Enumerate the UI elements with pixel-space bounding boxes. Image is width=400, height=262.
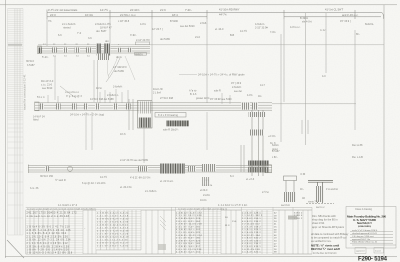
svg-text:6 sp @ 4⅛ = 24-10⅝: 6 sp @ 4⅛ = 24-10⅝ <box>82 182 106 185</box>
svg-text:2 6 L 4¾ 4 6-0⅛ 8-1 36: 2 6 L 4¾ 4 6-0⅛ 8-1 36 <box>97 221 129 224</box>
svg-text:rivets 7⅜: rivets 7⅜ <box>308 201 318 204</box>
svg-text:2 2 9-6¼ 156 1: 2 2 9-6¼ 156 1 <box>242 217 261 220</box>
svg-text:el. 21'-6 a.b.: el. 21'-6 a.b. <box>160 180 174 183</box>
svg-text:2 6 12-2¼ 184: 2 6 12-2¼ 184 <box>242 234 260 237</box>
svg-text:3'-9¼: 3'-9¼ <box>130 34 137 37</box>
svg-text:el. 20-0 fin: el. 20-0 fin <box>120 186 132 189</box>
svg-text:4-0⅝ o.c.: 4-0⅝ o.c. <box>290 26 301 29</box>
svg-text:4'-6 21'-8⅛ 10'-0¾: 4'-6 21'-8⅛ 10'-0¾ <box>130 177 152 180</box>
svg-text:to be compared to match R-col: to be compared to match R-col <box>311 236 347 240</box>
svg-text:appr. w/ Sheet E-98 System: appr. w/ Sheet E-98 System <box>312 225 344 229</box>
svg-text:B-B: B-B <box>230 34 235 37</box>
svg-text:1 L 6 9-6¼ 8-2 4 12 8¾ 342: 1 L 6 9-6¼ 8-2 4 12 8¾ 342 <box>27 232 67 235</box>
svg-text:(BUREAU OF YARDS): (BUREAU OF YARDS) <box>358 225 371 228</box>
svg-text:2-12” 20.7# see det 5189: 2-12” 20.7# see det 5189 <box>120 159 149 162</box>
svg-text:b 5187: b 5187 <box>27 64 35 67</box>
svg-text:Dec w #8: Dec w #8 <box>352 144 363 147</box>
svg-text:and 4'-0⅝ o.c.: and 4'-0⅝ o.c. <box>342 13 359 17</box>
svg-text:36 W·F: 36 W·F <box>26 60 35 63</box>
svg-text:B 5190: B 5190 <box>170 20 179 23</box>
svg-text:Class 4 drawing: Class 4 drawing <box>355 208 373 211</box>
svg-text:14 W·F 34# det 5188: 14 W·F 34# det 5188 <box>90 98 114 101</box>
svg-text:shop dwg for the 80 in: shop dwg for the 80 in <box>312 218 338 222</box>
svg-text:1 2 B 4¾ 11-0⅛ 218: 1 2 B 4¾ 11-0⅛ 218 <box>176 223 202 226</box>
svg-text:16'-3⅛: 16'-3⅛ <box>85 13 94 17</box>
svg-text:2-12” 20.7# [: 2-12” 20.7# [ <box>136 39 150 42</box>
svg-text:2 L 4¼ 8-6 11-2 4 16 5¼ 412: 2 L 4¼ 8-6 11-2 4 16 5¼ 412 <box>27 242 69 245</box>
svg-text:det 5189: det 5189 <box>160 38 170 41</box>
svg-text:as verified for rev.: as verified for rev. <box>311 239 332 243</box>
svg-text:2 1 6-4¼ 322 1: 2 1 6-4¼ 322 1 <box>242 251 261 254</box>
svg-text:3-6: 3-6 <box>88 37 92 40</box>
svg-text:41'-10⅝ RD RWY: 41'-10⅝ RD RWY <box>219 8 240 12</box>
svg-text:7-0¼: 7-0¼ <box>270 31 277 34</box>
svg-text:27 W·F 94#: 27 W·F 94# <box>160 97 174 100</box>
svg-text:C.E. dwg no. 5194 sect: C.E. dwg no. 5194 sect <box>352 235 374 238</box>
svg-text:1 6 B 4¼ 2 5-6¾ 8-3 19: 1 6 B 4¼ 2 5-6¾ 8-3 19 <box>97 236 129 239</box>
svg-text:det 5189: det 5189 <box>114 70 124 73</box>
svg-text:24'-10⅝ + 14'-7½ + 24'-4 c. o: 24'-10⅝ + 14'-7½ + 24'-4 c. of RWY girde… <box>198 73 245 77</box>
svg-text:F290- 5194: F290- 5194 <box>358 256 388 262</box>
svg-text:4⅛″ø: 4⅛″ø <box>96 87 102 90</box>
svg-text:sht 4-0⅝: sht 4-0⅝ <box>302 21 313 24</box>
svg-text:det A: det A <box>116 56 122 59</box>
svg-text:6-6: 6-6 <box>58 34 62 37</box>
svg-text:1 mk sect len wt 2 4 L 36 148: 1 mk sect len wt 2 4 L 36 148 <box>27 215 70 218</box>
svg-text:15” 33.9 [: 15” 33.9 [ <box>340 20 351 23</box>
svg-text:2-6x6: 2-6x6 <box>200 22 207 25</box>
svg-text:4 2 B 3⅛ 2 9-2¼ 7-6 42: 4 2 B 3⅛ 2 9-2¼ 7-6 42 <box>97 218 129 221</box>
svg-text:REV Fld ¾” rivet add'l: REV Fld ¾” rivet add'l <box>311 247 340 251</box>
svg-text:15” [ 33.9: 15” [ 33.9 <box>231 82 242 85</box>
svg-text:1 B 8¾ 7-2¼ 5-6 1 14 6⅛ 326: 1 B 8¾ 7-2¼ 5-6 1 14 6⅛ 326 <box>27 249 70 252</box>
svg-text:Dw. c-4-B: Dw. c-4-B <box>352 156 363 159</box>
svg-text:4-0⅝: 4-0⅝ <box>247 94 252 97</box>
svg-text:2-6x4x⅜: 2-6x4x⅜ <box>113 86 122 89</box>
svg-text:2-6x6x¾ L: 2-6x6x¾ L <box>107 94 119 97</box>
svg-text:traced: traced <box>375 250 381 253</box>
svg-text:24'-0: 24'-0 <box>50 13 56 17</box>
svg-text:24'-10⅝: 24'-10⅝ <box>130 8 140 12</box>
svg-text:all data is continued with B'd: all data is continued with B'dway <box>311 232 349 236</box>
svg-text:2-½”ø: 2-½”ø <box>262 190 269 194</box>
svg-text:+2'-0¾: +2'-0¾ <box>268 135 277 138</box>
svg-text:4'-7½ 21'-1⅛ loose lintels: 4'-7½ 21'-1⅛ loose lintels <box>48 8 78 12</box>
svg-text:10-0¾: 10-0¾ <box>200 199 208 202</box>
svg-text:el 20-0: el 20-0 <box>200 189 208 192</box>
svg-text:W·F: W·F <box>225 225 230 227</box>
svg-text:New York, N. Y.: New York, N. Y. <box>357 221 372 225</box>
svg-text:for the Dec 12-8 42 sht: for the Dec 12-8 42 sht <box>313 252 337 255</box>
svg-text:14-7: 14-7 <box>260 84 265 87</box>
svg-text:36 W·F 150: 36 W·F 150 <box>40 175 54 178</box>
svg-text:4 2 B 8⅛ 9-6¼ 126: 4 2 B 8⅛ 9-6¼ 126 <box>176 217 201 220</box>
svg-text:12” 20.7 [: 12” 20.7 [ <box>152 28 163 31</box>
svg-text:6'-0 x 3'-6 bearing: 6'-0 x 3'-6 bearing <box>158 114 178 117</box>
svg-text:4 2 6-0⅛ 218 2: 4 2 6-0⅛ 218 2 <box>242 232 261 234</box>
svg-text:4-1 3x12⅝ x 27'-6: 4-1 3x12⅝ x 27'-6 <box>58 204 78 207</box>
svg-text:B. 4-6: B. 4-6 <box>190 93 197 96</box>
svg-text:1 1 14-2¾ 342 2: 1 1 14-2¾ 342 2 <box>242 214 263 217</box>
svg-text:6x6x¾: 6x6x¾ <box>272 144 280 147</box>
svg-text:see 5190: see 5190 <box>42 87 53 90</box>
svg-text:21'-6: 21'-6 <box>160 8 166 12</box>
svg-text:2-6x4x⅜ L 8½: 2-6x4x⅜ L 8½ <box>95 22 112 26</box>
svg-text:14-7½: 14-7½ <box>240 29 248 33</box>
svg-text:¾ riv: ¾ riv <box>320 29 326 32</box>
svg-text:4 2 B 3¾ 7-3¼ 423: 4 2 B 3¾ 7-3¼ 423 <box>176 239 201 242</box>
svg-text:2 2 7-3¼ 126 1: 2 2 7-3¼ 126 1 <box>242 239 261 242</box>
svg-text:2 2 5-6¾ 416 1: 2 2 5-6¾ 416 1 <box>242 245 261 248</box>
svg-text:approved N.E.T. file: approved N.E.T. file <box>352 238 371 241</box>
svg-text:det. 5187: det. 5187 <box>96 30 107 33</box>
svg-text:see det: see det <box>234 90 242 93</box>
svg-text:18'-4: 18'-4 <box>172 13 178 17</box>
svg-text:14-7½: 14-7½ <box>100 175 108 179</box>
svg-text:riveted: riveted <box>63 27 71 30</box>
svg-text:det: det <box>105 40 109 43</box>
svg-text:o o o 2⅛ o o: o o o 2⅛ o o <box>65 91 80 94</box>
svg-text:1 6 11-2⅛ 158: 1 6 11-2⅛ 158 <box>242 249 260 251</box>
svg-text:el. 44-0: el. 44-0 <box>215 28 224 31</box>
svg-text:sole R: sole R <box>214 90 221 93</box>
svg-text:sole R 18x1¼: sole R 18x1¼ <box>163 129 179 132</box>
svg-text:sect c-c: sect c-c <box>316 206 325 209</box>
svg-text:1”ø anchor: 1”ø anchor <box>326 188 338 191</box>
svg-text:scale ⅛”=1'-0 drawn R.M.S.: scale ⅛”=1'-0 drawn R.M.S. <box>352 229 378 232</box>
svg-text:36: 36 <box>225 217 229 219</box>
svg-text:b.m. 36: b.m. 36 <box>30 187 39 190</box>
svg-text:checked approved 9-12-41: checked approved 9-12-41 <box>352 232 378 235</box>
svg-text:8-4: 8-4 <box>230 175 234 178</box>
svg-text:sect b-b: sect b-b <box>281 204 291 207</box>
svg-text:gusset 12x⅝: gusset 12x⅝ <box>196 97 210 100</box>
svg-text:issued for construction 5-12-: issued for construction 5-12-41 <box>23 74 27 110</box>
svg-text:fitted: fitted <box>33 119 39 122</box>
svg-text:5'-2¾: 5'-2¾ <box>42 56 49 59</box>
svg-text:4. 4-1 3x12 ⅝ x 27'-6” 4 2⅛: 4. 4-1 3x12 ⅝ x 27'-6” 4 2⅛ <box>218 204 247 207</box>
svg-text:2 6 L 5¼ 11-2⅛ 234: 2 6 L 5¼ 11-2⅛ 234 <box>176 248 202 251</box>
svg-text:21'-5⅜ c. to c.: 21'-5⅜ c. to c. <box>120 13 136 17</box>
svg-text:Dim. NB checks with: Dim. NB checks with <box>312 214 336 218</box>
svg-text:2 1 L 6⅛ 1 11-2 6-0 33: 2 1 L 6⅛ 1 11-2 6-0 33 <box>97 240 128 242</box>
svg-text:see det 5190: see det 5190 <box>180 25 195 28</box>
svg-text:B 5187: B 5187 <box>272 150 280 153</box>
svg-text:10'-6: 10'-6 <box>120 133 126 136</box>
svg-text:2-6x4x⅜: 2-6x4x⅜ <box>232 86 241 89</box>
svg-text:4-0⅝: 4-0⅝ <box>140 23 147 26</box>
svg-text:4 1 B 5¾ 2 7-3¼ 9-0 38: 4 1 B 5¾ 2 7-3¼ 9-0 38 <box>97 230 129 233</box>
svg-text:Public Works Officer no. 41: Public Works Officer no. 41 <box>352 241 378 244</box>
svg-text:sheet # 94.: sheet # 94. <box>312 221 325 225</box>
svg-text:21-0: 21-0 <box>195 36 201 39</box>
svg-text:2-L 6x6x¾: 2-L 6x6x¾ <box>145 190 157 193</box>
svg-text:241 267 1750 50#50 4 21 B 64 1: 241 267 1750 50#50 4 21 B 64 172 <box>27 213 78 215</box>
svg-text:14'-7½: 14'-7½ <box>100 8 109 12</box>
svg-text:⅝ fill: ⅝ fill <box>300 173 306 176</box>
svg-text:2 7 B 8¼ 2 4-1¾ 6-3 24: 2 7 B 8¼ 2 4-1¾ 6-3 24 <box>97 212 129 215</box>
svg-text:41'-1⅝ CL SH'T: 41'-1⅝ CL SH'T <box>325 8 344 12</box>
svg-text:c 18” 45.8: c 18” 45.8 <box>118 20 130 23</box>
svg-text:approved: approved <box>356 251 364 253</box>
svg-text:21-8⅛: 21-8⅛ <box>203 194 210 197</box>
svg-text:el +4'-6: el +4'-6 <box>246 178 255 181</box>
svg-text:44'-7¾: 44'-7¾ <box>219 12 228 16</box>
svg-text:2 1 L 3¼ 14-2¾ 418: 2 1 L 3¼ 14-2¾ 418 <box>176 214 202 217</box>
svg-text:15” 33.9# see 5190: 15” 33.9# see 5190 <box>210 98 232 101</box>
svg-text:24'-10⅝ + 14'-7½ + 2'-0¾ (typ): 24'-10⅝ + 14'-7½ + 2'-0¾ (typ) <box>70 113 104 117</box>
svg-text:5194 2: 5194 2 <box>294 213 303 215</box>
svg-text:3” g. 6 sp @ 3: 3” g. 6 sp @ 3 <box>66 95 82 98</box>
svg-text:14” 34# W·F: 14” 34# W·F <box>113 66 127 69</box>
svg-text:2-15” 33.9#: 2-15” 33.9# <box>255 27 268 30</box>
svg-text:2 2 11-0⅛ 412: 2 2 11-0⅛ 412 <box>242 224 260 226</box>
svg-text:½” web R: ½” web R <box>55 178 66 182</box>
svg-text:4-0: 4-0 <box>322 75 326 78</box>
svg-text:7'-0¼: 7'-0¼ <box>185 8 192 12</box>
svg-text:8x4x⅜L: 8x4x⅜L <box>365 23 374 26</box>
svg-text:2 L 6x4: 2 L 6x4 <box>153 92 161 95</box>
svg-text:150: 150 <box>232 221 237 223</box>
svg-text:7'-0: 7'-0 <box>77 32 82 35</box>
svg-text:2 2 L 8¾ 6-0⅛ 329: 2 2 L 8¾ 6-0⅛ 329 <box>176 231 201 234</box>
svg-text:5⅝ x ¾: 5⅝ x ¾ <box>37 96 46 99</box>
svg-text:1 4 7-4¼ 158 2: 1 4 7-4¼ 158 2 <box>242 225 261 228</box>
